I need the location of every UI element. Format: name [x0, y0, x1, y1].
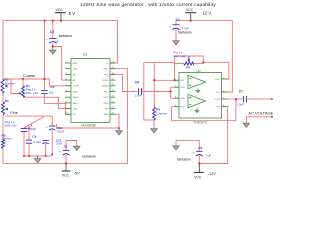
svg-text:GND: GND [103, 103, 108, 105]
svg-text:IN1-: IN1- [181, 80, 185, 82]
wire bias net horizontal [144, 62, 175, 64]
wire C1 bottom to rail [65, 155, 67, 163]
svg-text:1uF: 1uF [54, 39, 59, 43]
ground under R4 [151, 129, 157, 133]
wire bias vertical left [144, 63, 154, 120]
svg-text:4.7uF: 4.7uF [182, 27, 189, 31]
capacitor C6 [138, 88, 140, 94]
wire left chain R2-R3 [2, 93, 4, 102]
wire ground stem near C8 [175, 141, 177, 146]
wire C1 top [65, 141, 67, 151]
svg-text:COSC: COSC [73, 86, 80, 88]
wire into IN2+ [171, 97, 180, 99]
svg-text:OUT1: OUT1 [214, 79, 221, 81]
resistor R8 zigzag [2, 139, 5, 148]
svg-text:C2: C2 [176, 18, 180, 22]
U1 pin stubs left [65, 63, 71, 114]
capacitor C9 [26, 139, 32, 141]
svg-text:GND: GND [73, 69, 78, 71]
wire C8 bottom to -12V bar [198, 156, 200, 172]
capacitor C2 [173, 24, 180, 26]
svg-text:IIN: IIN [73, 114, 76, 116]
power VCC -12V [194, 164, 216, 180]
capacitor C5 [41, 90, 47, 92]
wire Fine wiper to C10 [6, 116, 53, 126]
wire R5 loop left vertical [174, 56, 176, 80]
op-amp U2 triangle A [188, 75, 206, 88]
svg-text:C5: C5 [50, 85, 54, 89]
capacitor C1 [63, 149, 69, 151]
wire C9 bottom to bus [28, 143, 30, 156]
wire R5 left terminal [175, 63, 184, 65]
svg-text:VCC: VCC [194, 176, 202, 180]
resistor R3 wiper arrow [5, 108, 8, 111]
wire R1 wiper [11, 79, 20, 93]
U2 internal ground B [195, 108, 200, 113]
svg-text:DGND: DGND [102, 86, 109, 88]
wire left chain R3-R8 [2, 115, 4, 139]
svg-text:-12V: -12V [208, 172, 216, 176]
op-amp U2 box [179, 73, 222, 119]
wire C2 to ground [175, 29, 177, 41]
wire R4 top [153, 63, 155, 107]
svg-text:AC VOLTAGE: AC VOLTAGE [248, 111, 273, 116]
svg-text:Fine: Fine [10, 110, 18, 115]
svg-text:+: + [39, 140, 41, 144]
svg-text:TCA0372: TCA0372 [193, 120, 207, 124]
wire IC pin3R jog to C6 [110, 74, 138, 91]
wire diagonal capA to Fine net [24, 117, 44, 128]
svg-text:OUT2: OUT2 [214, 99, 221, 101]
svg-text:GND: GND [73, 91, 78, 93]
wire C4 junction to IC pin 4L [53, 47, 71, 81]
wire amp A minus input [154, 79, 179, 81]
ground bus bottom left [34, 159, 40, 163]
resistor R5 pot zigzag [184, 62, 195, 65]
svg-text:GND: GND [73, 109, 78, 111]
resistor R2 pot zigzag [1, 79, 4, 93]
U2 internal ground A [196, 89, 201, 93]
ground AC VOLTAGE [243, 123, 249, 127]
wire C4 to ground junction [52, 43, 54, 47]
svg-text:VCC: VCC [56, 8, 64, 12]
wire into IN1+ [171, 86, 180, 88]
svg-text:IN2+: IN2+ [181, 98, 186, 100]
wire bus ground stem [37, 156, 39, 159]
U1 pin numbers right [112, 61, 115, 114]
power VCC -5V [62, 163, 81, 177]
svg-text:GND: GND [103, 114, 108, 116]
svg-text:R5: R5 [186, 66, 190, 70]
ground under C2 [173, 41, 179, 45]
power VCC 12V [185, 8, 211, 21]
svg-text:tantalum: tantalum [177, 158, 191, 162]
resistor R2 wiper arrow [4, 85, 7, 88]
ground under IC [116, 128, 122, 135]
U2 pin names [181, 80, 186, 108]
resistor R1 pot zigzag [22, 86, 25, 97]
svg-text:C7: C7 [239, 90, 243, 94]
svg-text:2.2kohm: 2.2kohm [156, 111, 168, 115]
wire C1 hang segment [66, 141, 77, 147]
U2 pin numbers [175, 77, 225, 107]
U2 pin stubs right [222, 79, 228, 107]
svg-text:MAX8038: MAX8038 [82, 123, 96, 127]
wire C5 bottom to IC pin 10L [45, 94, 72, 114]
wire C9 top [28, 128, 30, 140]
resistor R3 pot zigzag [2, 102, 5, 115]
svg-text:12 V: 12 V [203, 10, 212, 15]
svg-text:50%_LIN: 50%_LIN [26, 91, 38, 95]
svg-text:5 V: 5 V [69, 11, 75, 16]
wire -12V cap top segment [176, 141, 199, 151]
svg-text:+: + [46, 38, 48, 42]
wire R5 right terminal to OUT1 [194, 63, 203, 65]
svg-text:IN1+: IN1+ [181, 87, 186, 89]
wire R8 to bottom rail [2, 148, 4, 163]
svg-text:+: + [169, 24, 171, 28]
wire capA top bus under IC [56, 124, 119, 128]
svg-text:U1: U1 [83, 52, 88, 56]
svg-text:FADJ: FADJ [73, 102, 78, 105]
svg-text:Coarse: Coarse [23, 73, 36, 78]
svg-text:-5V: -5V [74, 171, 80, 175]
svg-text:10uF: 10uF [56, 142, 63, 146]
svg-text:DADJ: DADJ [73, 96, 79, 99]
U1 pin names left [73, 63, 80, 116]
svg-text:VCC: VCC [186, 8, 194, 12]
wire ground bus [24, 155, 52, 157]
svg-text:100pF: 100pF [28, 127, 36, 131]
ground near C8 [173, 146, 179, 150]
op-amp U1 box (function generator IC) [71, 59, 110, 123]
power VCC 5V [55, 8, 75, 21]
U1 pin names right [102, 63, 109, 116]
wire Coarse net [3, 79, 71, 86]
svg-text:NC: NC [105, 109, 109, 111]
wire rail to C5 [44, 21, 46, 90]
U1 pin numbers left [65, 61, 68, 114]
wire AC VOLTAGE return [246, 117, 272, 124]
svg-text:tantalum: tantalum [59, 34, 73, 38]
svg-text:OUT: OUT [104, 97, 109, 99]
svg-text:VS-: VS- [217, 107, 221, 109]
resistor R4 zigzag [153, 107, 156, 120]
wire C6 right to opamp inputs [143, 91, 171, 93]
svg-text:PDO: PDO [104, 69, 109, 71]
wire feedback A [203, 62, 229, 79]
svg-text:VCC: VCC [62, 174, 70, 178]
svg-text:1uF: 1uF [206, 154, 211, 158]
resistor R5 wiper arrow and stem [188, 56, 190, 59]
svg-text:+: + [59, 150, 61, 154]
svg-text:Gain_adj: Gain_adj [173, 54, 185, 58]
svg-text:PDI: PDI [105, 74, 109, 76]
svg-text:VS+: VS+ [216, 92, 221, 94]
wire R1 bottom to IC pin 9L [23, 97, 71, 108]
op-amp U2 triangle B [188, 94, 206, 107]
wire R5 wiper top [175, 56, 204, 64]
U2 triangle B input marks [189, 97, 191, 105]
svg-text:10kohm: 10kohm [1, 137, 12, 141]
ground under C4 [50, 47, 56, 55]
U2 pin stubs left [174, 80, 179, 106]
U2 triangle A input marks [189, 79, 191, 87]
resistor R1 wiper arrow [19, 92, 22, 95]
wire VS- pin to -12V net [199, 107, 227, 164]
svg-text:3nF: 3nF [49, 91, 54, 95]
wire bottom rail -5V net [3, 69, 127, 164]
svg-text:C6: C6 [135, 80, 139, 84]
svg-text:1.0uF: 1.0uF [237, 102, 244, 106]
wire IC pin10R to ground [110, 114, 119, 128]
svg-text:+: + [193, 150, 195, 154]
svg-text:R3: R3 [5, 99, 9, 103]
wire 12V rail [176, 21, 232, 92]
wire opamp A+ B+ tie [170, 87, 172, 98]
svg-text:tantalum: tantalum [178, 30, 192, 34]
ground near C1 [74, 146, 80, 150]
svg-text:C8: C8 [198, 146, 202, 150]
capacitor C11 [42, 140, 48, 142]
svg-text:IN2-: IN2- [181, 107, 185, 109]
svg-text:1.0uF: 1.0uF [134, 94, 141, 98]
svg-text:50%_LIN: 50%_LIN [5, 124, 17, 128]
svg-text:C9: C9 [32, 135, 36, 139]
capacitor C8 [196, 150, 202, 152]
svg-text:C4: C4 [50, 30, 54, 34]
svg-text:DV+: DV+ [104, 91, 109, 93]
wire C7 to terminal [248, 98, 272, 100]
wire C11 bottom to bus [45, 144, 47, 156]
svg-text:tantalum: tantalum [82, 155, 96, 159]
wire C4 branch from rail [52, 21, 54, 38]
svg-text:+: + [46, 125, 48, 129]
wire R4 bottom to ground [153, 120, 155, 129]
wire C10 bottom to C11 top [51, 130, 53, 156]
wire 5V top rail [3, 21, 118, 79]
capacitor C7 [242, 96, 244, 102]
capacitor C4 [49, 37, 57, 39]
capacitor C10 [49, 125, 55, 127]
svg-text:50kohm: 50kohm [5, 82, 16, 86]
wire R1 top feed [22, 79, 24, 86]
wire OUT2 to C7 [222, 98, 242, 100]
wire feedback B [172, 99, 236, 121]
svg-text:C1: C1 [64, 145, 68, 149]
polarized cap plus marks [39, 24, 194, 154]
svg-text:SYNC: SYNC [102, 80, 108, 82]
wire capA bottom to bus [23, 132, 25, 156]
capacitor C3 [21, 127, 27, 129]
svg-text:120Hz Sine wave generator , wi: 120Hz Sine wave generator , with 1Amax c… [80, 2, 216, 8]
svg-text:120uF: 120uF [57, 129, 65, 133]
svg-text:REF: REF [73, 63, 78, 65]
svg-text:U2: U2 [197, 69, 201, 73]
U1 pin stubs right [110, 63, 116, 114]
